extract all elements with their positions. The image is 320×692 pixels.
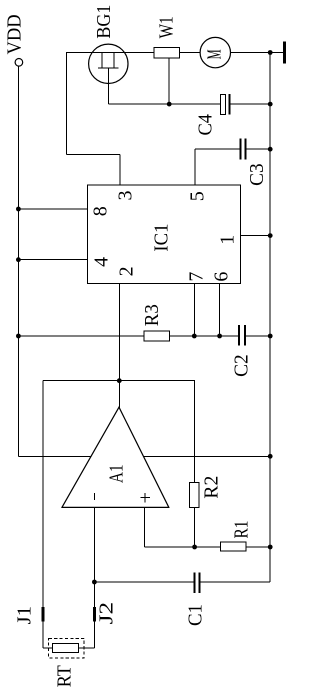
svg-text:J2: J2 <box>95 602 117 625</box>
svg-text:C2: C2 <box>231 354 253 377</box>
svg-text:W1: W1 <box>156 16 178 38</box>
svg-text:M: M <box>203 49 225 59</box>
svg-text:4: 4 <box>91 257 113 267</box>
svg-text:5: 5 <box>186 191 208 201</box>
svg-text:A1: A1 <box>106 464 128 483</box>
svg-text:C1: C1 <box>185 604 207 626</box>
svg-text:8: 8 <box>89 206 111 216</box>
svg-text:2: 2 <box>116 266 138 276</box>
svg-text:C3: C3 <box>246 163 268 186</box>
svg-text:3: 3 <box>115 191 137 201</box>
svg-text:R2: R2 <box>200 476 222 499</box>
svg-text:IC1: IC1 <box>150 224 172 252</box>
svg-text:BG1: BG1 <box>93 5 115 39</box>
svg-text:RT: RT <box>54 665 76 687</box>
svg-text:R1: R1 <box>231 521 253 539</box>
svg-text:J1: J1 <box>14 606 36 625</box>
svg-text:VDD: VDD <box>4 14 26 54</box>
svg-text:R3: R3 <box>141 304 163 326</box>
svg-text:1: 1 <box>217 235 239 245</box>
svg-text:6: 6 <box>210 272 232 282</box>
svg-text:7: 7 <box>186 272 208 282</box>
svg-text:C4: C4 <box>195 114 217 136</box>
